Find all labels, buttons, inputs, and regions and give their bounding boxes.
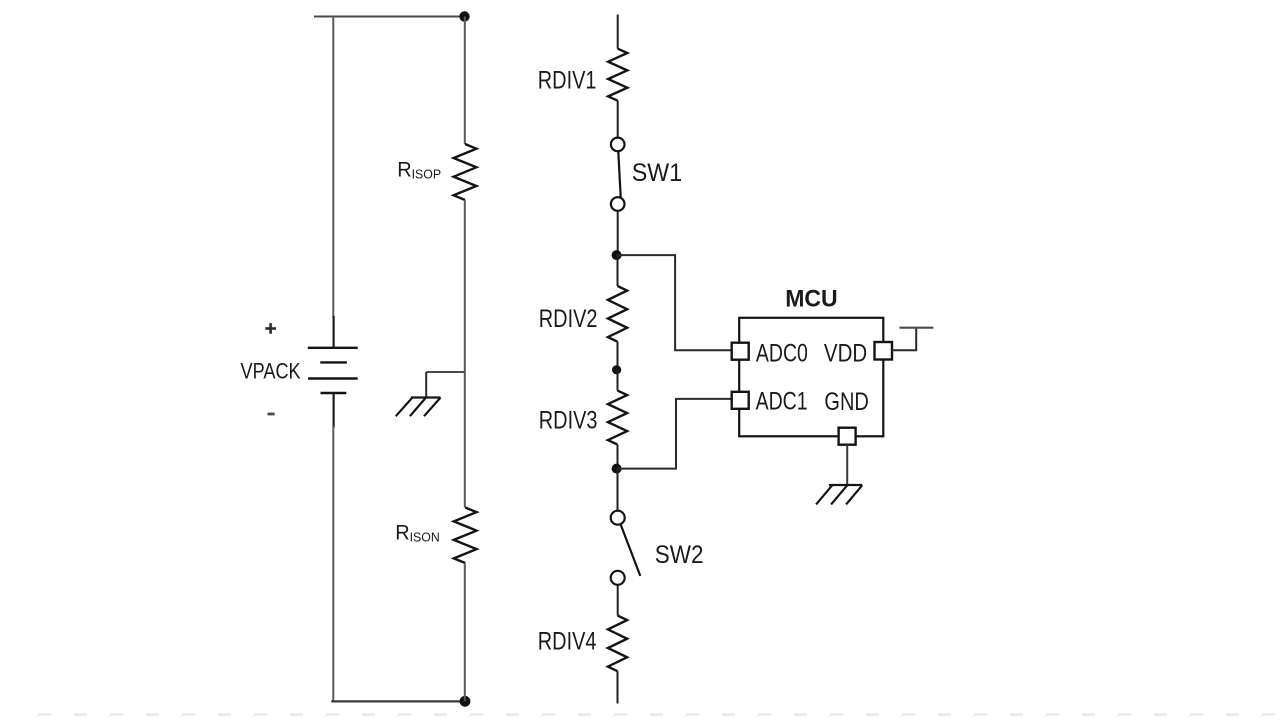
wire RDIV3 to node C: [617, 445, 619, 469]
pin VDD square: [875, 342, 893, 360]
wire left vertical (battery positive lead): [332, 17, 334, 319]
switch SW2 top contact: [611, 511, 625, 525]
op-amp MCU box: [739, 318, 883, 437]
pin ADC0 square: [732, 343, 749, 360]
svg-text:ADC0: ADC0: [756, 339, 808, 367]
resistor RDIV1: [608, 49, 627, 101]
wire battery bottom stub: [333, 393, 335, 428]
wire ground tap vertical: [425, 372, 427, 398]
power rail VDD bar: [899, 327, 933, 329]
pin ADC1 square: [732, 392, 749, 409]
resistor RDIV3: [608, 391, 627, 445]
ground (battery mid reference): [396, 398, 441, 417]
svg-text:ADC1: ADC1: [756, 387, 808, 415]
wire GND pin down: [846, 445, 848, 485]
wire bottom horizontal: [331, 700, 465, 702]
switch SW1 blade (closed): [618, 152, 620, 198]
wire left vertical lower (battery negative lead): [332, 426, 334, 701]
svg-text:VPACK: VPACK: [241, 360, 302, 384]
svg-text:SW2: SW2: [655, 541, 704, 569]
wire node B to RDIV3: [617, 370, 619, 391]
wire right vertical middle: [464, 200, 466, 508]
svg-text:RDIV1: RDIV1: [538, 66, 597, 93]
wire right vertical lower: [464, 563, 466, 701]
svg-text:RDIV2: RDIV2: [539, 305, 598, 332]
svg-text:VDD: VDD: [824, 339, 867, 367]
resistor RISON: [454, 508, 477, 564]
node top-right junction dot: [459, 11, 469, 21]
pin GND square: [839, 428, 856, 445]
label - (battery negative): [268, 413, 275, 416]
svg-text:RDIV4: RDIV4: [538, 628, 597, 655]
switch SW1 bottom contact: [611, 197, 625, 211]
wire VDD pin to power rail: [892, 328, 916, 351]
ground (MCU GND): [816, 485, 862, 504]
svg-text:SW1: SW1: [632, 159, 682, 187]
node A junction dot: [612, 250, 622, 260]
wire node C to SW2: [617, 469, 619, 511]
wire node C to ADC1: [617, 399, 732, 469]
svg-text:GND: GND: [824, 388, 868, 416]
wire divider top stub: [617, 15, 619, 49]
switch SW2 bottom contact: [611, 571, 625, 585]
wire node A to RDIV2: [617, 255, 619, 286]
node B junction dot: [612, 365, 621, 374]
wire ground tap horizontal: [426, 371, 465, 373]
wire right vertical upper (to RISOP): [464, 17, 466, 145]
label + (battery positive): [265, 323, 276, 334]
wire RDIV1 to SW1: [617, 101, 619, 138]
svg-text:RDIV3: RDIV3: [539, 406, 598, 433]
wire RDIV2 to node B: [617, 342, 619, 370]
wire SW1 to node A: [617, 211, 619, 255]
battery VPACK: [308, 348, 358, 393]
node bottom-right junction dot: [460, 696, 471, 707]
resistor RDIV2: [608, 286, 627, 342]
svg-text:MCU: MCU: [785, 285, 837, 313]
wire SW2 to RDIV4: [617, 585, 619, 616]
resistor RDIV4: [608, 616, 627, 672]
node C junction dot: [612, 464, 622, 474]
switch SW1 top contact: [611, 138, 625, 152]
resistor RISOP: [454, 144, 477, 200]
wire battery top stub: [333, 316, 335, 348]
wire faint cropped artifact row at bottom: [38, 713, 1276, 715]
switch SW2 blade (open): [621, 525, 641, 576]
wire node A to ADC0: [617, 255, 732, 350]
wire RDIV4 bottom tail: [617, 671, 619, 703]
wire top horizontal (battery loop top): [314, 16, 465, 18]
